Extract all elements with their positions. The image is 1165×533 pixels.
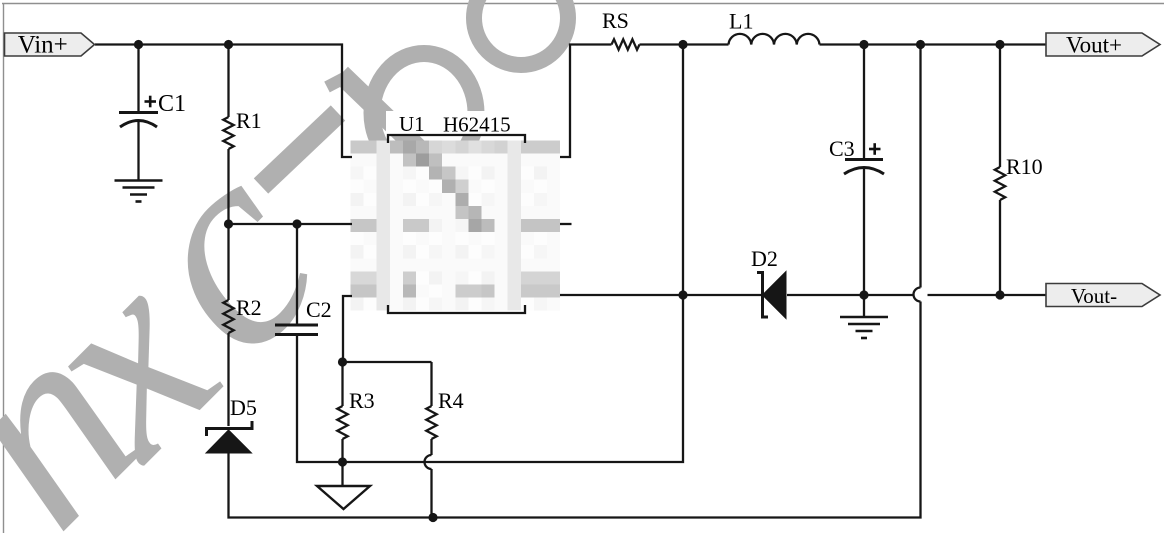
wire bottom rail right <box>433 302 921 518</box>
resistor R10 <box>995 167 1005 200</box>
junction node D2/C3/gnd <box>859 290 868 299</box>
pixelated mosaic over U1 <box>351 140 561 310</box>
frame border top <box>2 3 1164 5</box>
svg-text:C1: C1 <box>158 91 186 117</box>
C3 polarity plus <box>869 143 881 155</box>
resistor R4 <box>426 406 436 439</box>
resistor RS <box>612 39 640 49</box>
wire hop R4 over lower wire <box>425 455 432 469</box>
watermark o <box>474 0 568 65</box>
junction node bottom rail/R4 <box>428 513 437 522</box>
op-amp U1 body outline <box>388 135 525 143</box>
resistor R3 leads <box>341 362 343 406</box>
junction node L1/R10 <box>995 40 1004 49</box>
watermark p stem serif <box>327 75 350 87</box>
IC middle right stub <box>560 223 572 225</box>
svg-text:Vout+: Vout+ <box>1066 33 1122 58</box>
ground stub under node 864 <box>863 295 865 316</box>
junction node Vin/R1 <box>224 40 233 49</box>
svg-text:Vin+: Vin+ <box>18 32 68 59</box>
junction node C2 top <box>292 219 301 228</box>
resistor R10 leads <box>999 45 1001 168</box>
wire top rail left <box>95 45 352 158</box>
wire middle pin row <box>229 223 353 225</box>
svg-text:R4: R4 <box>438 388 464 413</box>
wire D2 to gnd node <box>787 294 864 296</box>
wire hop to Vout- <box>928 294 1047 296</box>
resistor R1 <box>223 117 233 149</box>
wire lower horizontal to vertical 683 <box>342 45 683 463</box>
wire R3 R4 top <box>343 361 432 363</box>
capacitor C3 plates <box>845 158 883 161</box>
svg-text:R3: R3 <box>349 388 375 413</box>
capacitor C2 plates <box>275 324 318 327</box>
junction node Vin/C1 <box>134 40 143 49</box>
C1 polarity plus <box>145 96 157 108</box>
junction node L1/C3 <box>859 40 868 49</box>
resistor R2 <box>223 300 233 333</box>
junction node R10/Vout- <box>995 290 1004 299</box>
watermark dash <box>261 113 338 186</box>
ground at D2 node <box>840 317 888 338</box>
port Vin+ <box>5 33 95 56</box>
diode D2 <box>757 273 768 318</box>
junction node R3/R4 top <box>338 357 347 366</box>
junction node R1/R2/pin <box>224 219 233 228</box>
wire R4 hop to bottom rail <box>430 469 432 518</box>
junction node L1/feedback <box>916 40 925 49</box>
wire L1 to Vout+ <box>820 43 1047 45</box>
capacitor C1 leads <box>137 45 139 113</box>
wire RS to L1 <box>640 43 729 45</box>
svg-text:Vout-: Vout- <box>1071 284 1117 308</box>
resistor R3 <box>337 406 347 439</box>
port Vout- <box>1046 284 1160 307</box>
resistor R4 leads <box>430 362 432 406</box>
capacitor C1 plates <box>119 111 158 114</box>
resistor R2 leads <box>227 224 229 300</box>
capacitor C3 leads <box>863 45 865 159</box>
wire gnd node to hop <box>864 294 914 296</box>
svg-text:U1: U1 <box>399 112 425 136</box>
watermark p bowl <box>372 54 476 173</box>
watermark p stem <box>341 74 428 158</box>
resistor R1 leads <box>227 45 229 118</box>
white band behind U1 title <box>386 111 527 135</box>
port Vout+ <box>1046 33 1160 56</box>
wire IC pin3 bottom left <box>343 296 352 362</box>
ground stub under gnd triangle node <box>341 462 343 485</box>
junction node R3 bottom <box>338 457 347 466</box>
wire IC pin4 bottom right to D2 <box>560 294 761 296</box>
diode D5 <box>207 421 253 436</box>
svg-text:R1: R1 <box>236 108 262 133</box>
svg-text:R10: R10 <box>1006 154 1043 179</box>
junction node pin4/vert <box>678 290 687 299</box>
inductor L1 <box>729 34 820 45</box>
ground triangle under R3 node <box>317 486 370 509</box>
wire IC pin2 top right to RS <box>560 45 612 158</box>
svg-text:H62415: H62415 <box>443 113 511 137</box>
svg-text:RS: RS <box>602 8 629 33</box>
wire hop feedback over Vout- wire <box>914 288 921 302</box>
wire feedback vertical above hop <box>919 45 921 288</box>
svg-text:C2: C2 <box>306 297 332 322</box>
junction node RS-L1 <box>678 40 687 49</box>
frame border left <box>3 3 5 533</box>
svg-text:L1: L1 <box>729 9 753 34</box>
diode D5 lead to bottom rail <box>229 453 434 518</box>
ground under C1 <box>115 181 163 202</box>
capacitor C2 leads <box>296 224 298 324</box>
svg-text:D2: D2 <box>751 246 778 271</box>
watermark gray text nxc-po <box>0 92 379 533</box>
svg-text:D5: D5 <box>230 395 257 420</box>
svg-text:C3: C3 <box>829 136 855 161</box>
svg-text:R2: R2 <box>236 295 262 320</box>
